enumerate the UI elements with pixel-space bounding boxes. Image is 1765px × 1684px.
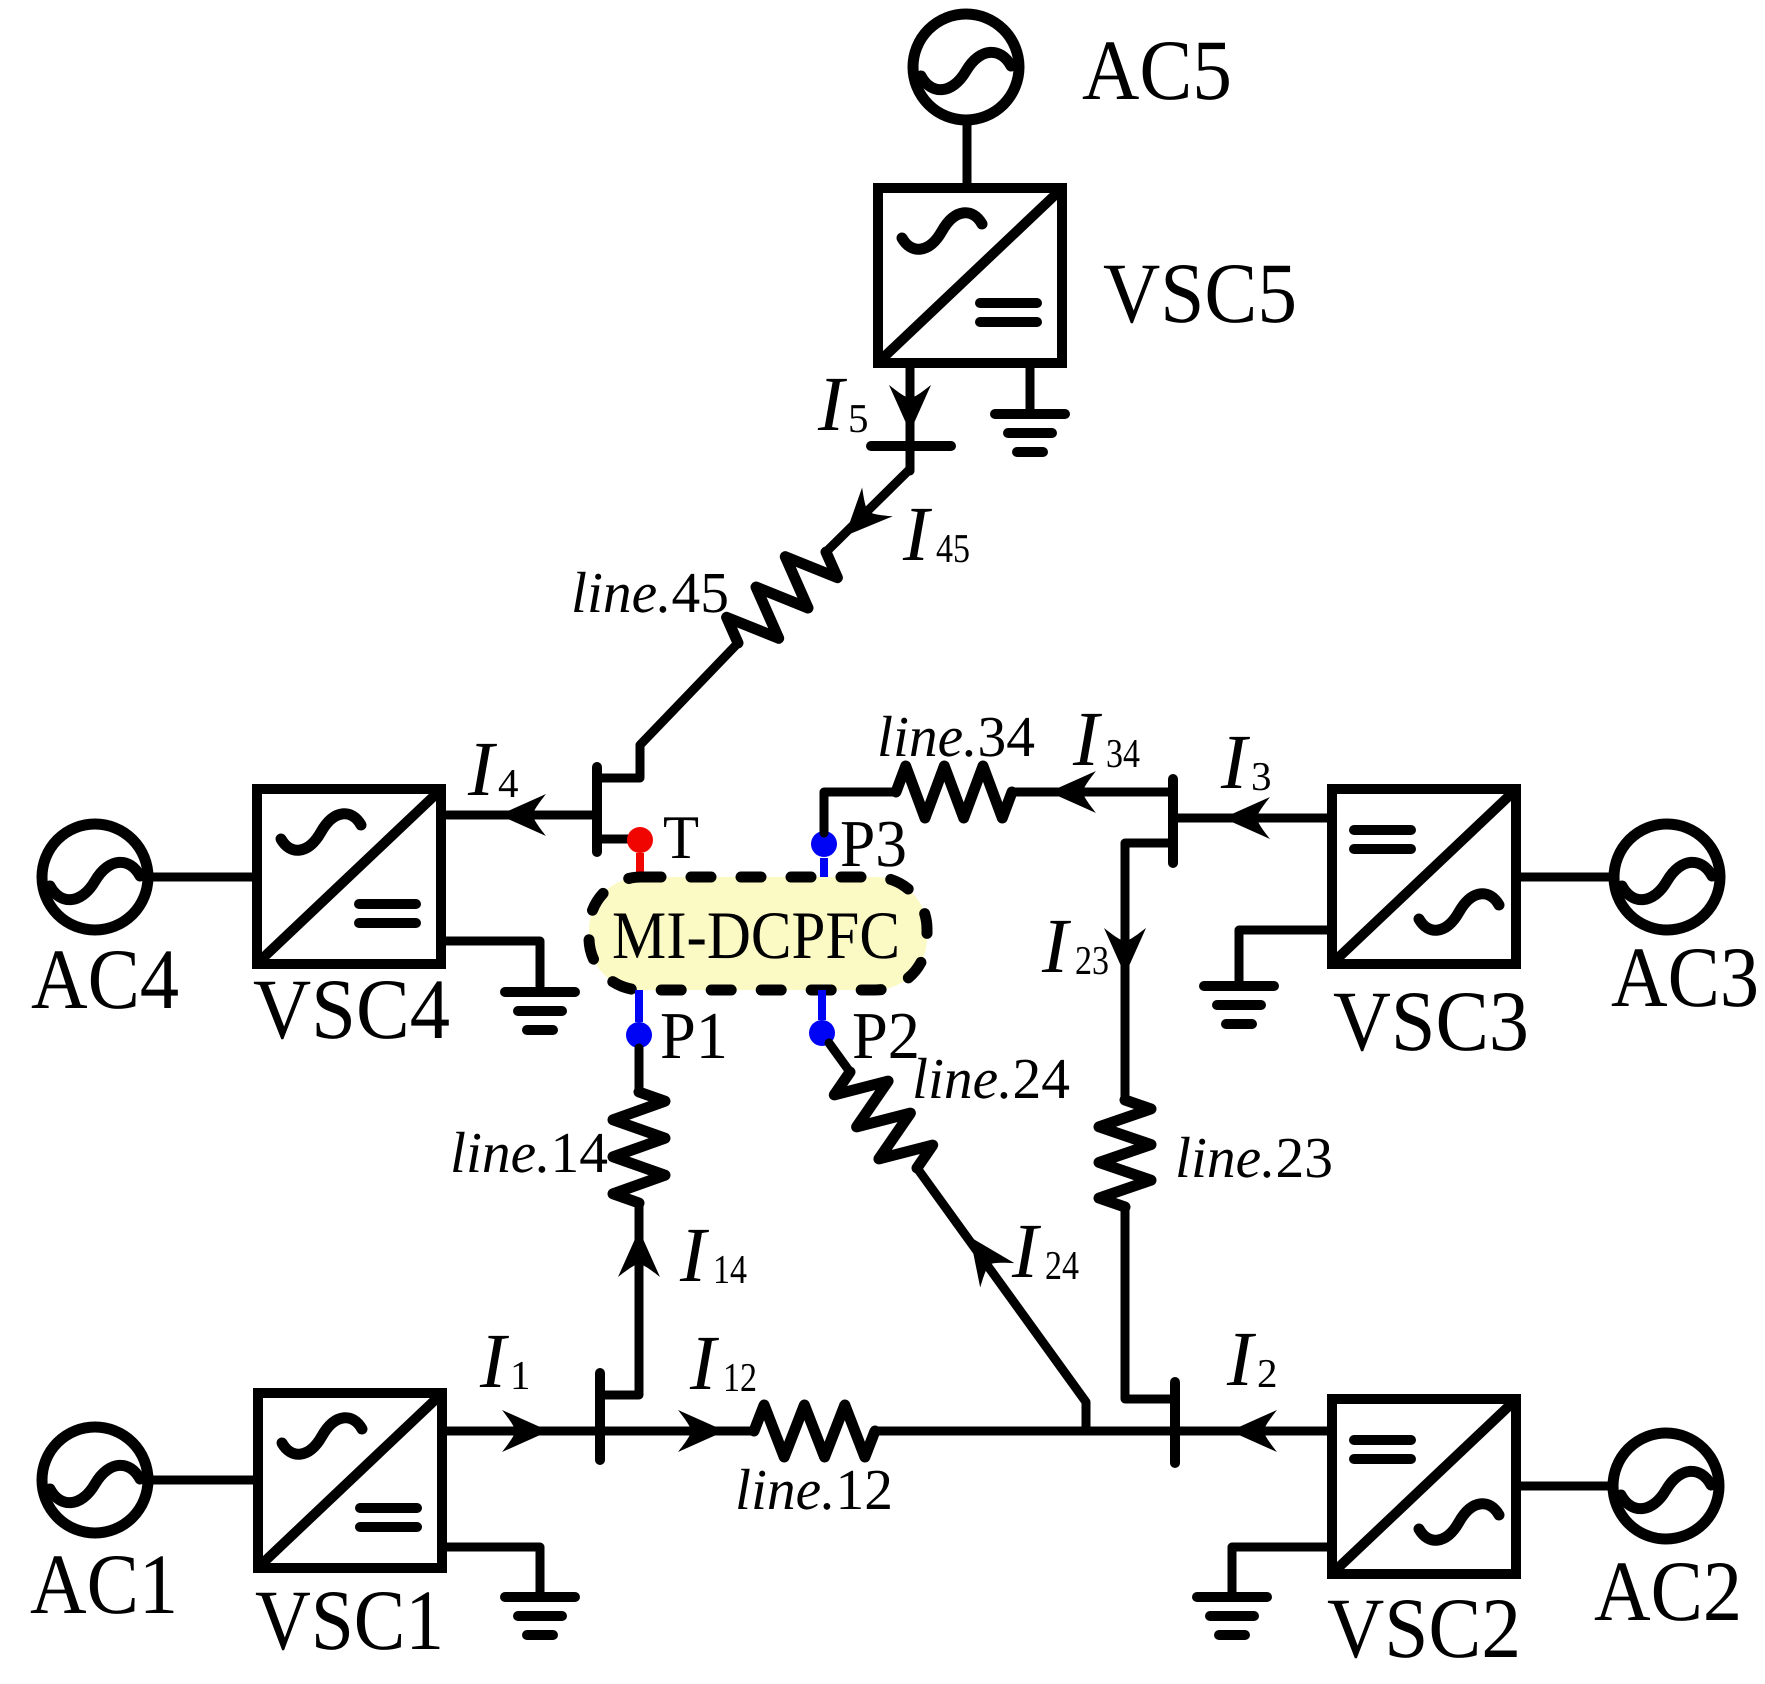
svg-text:P2: P2 [852,999,920,1073]
arrow I14 [618,1230,660,1277]
wire I2 VSC2 to bus2 [1175,1427,1327,1436]
ground at VSC5 [1026,363,1035,414]
converter VSC3 [1332,789,1516,964]
wire P1 to line.14 [635,1048,644,1092]
ground at VSC4 [505,987,575,997]
ac source AC1 [42,1427,148,1533]
wire line.23 to bus2 [1125,1207,1175,1399]
arrow I12 [678,1410,725,1452]
arrow I3 [1223,797,1270,839]
svg-text:line.14: line.14 [450,1120,608,1185]
ground at VSC3 [1204,981,1274,991]
ac source AC5 [913,14,1019,120]
resistor line.14 [613,1092,665,1203]
bus node 2 [1170,1382,1180,1463]
svg-text:VSC3: VSC3 [1333,973,1529,1069]
arrow I45 [830,487,893,550]
ac source AC3 [1614,824,1720,930]
wire AC5 to VSC5 [963,123,972,188]
wire P2 to line.24 [829,1043,850,1072]
svg-text:VSC2: VSC2 [1327,1580,1521,1676]
resistor line.23 [1099,1100,1151,1207]
svg-text:line.45: line.45 [571,560,729,625]
svg-text:T: T [663,804,699,872]
arrow I5 [889,385,931,432]
wire line.14 to bus1 [600,1203,639,1395]
svg-text:AC3: AC3 [1611,929,1759,1025]
svg-text:VSC4: VSC4 [253,961,450,1057]
wire I4 bus4 to VSC4 [447,811,597,820]
wire VSC1 ground elbow [442,1547,540,1597]
svg-text:line.34: line.34 [877,704,1035,769]
wire VSC4 ground elbow [441,941,540,992]
arrow I24 [953,1225,1014,1288]
arrow I34 [1049,771,1096,813]
wire VSC3 ground elbow [1239,930,1331,986]
wire line.45 diagonal [826,469,910,552]
wire line.12 [600,1427,754,1436]
wire AC1 to VSC1 [151,1476,258,1485]
bus node 3 [1168,779,1178,863]
wire bus3 to line.23 [1125,843,1173,1100]
ground at VSC2 [1197,1592,1267,1602]
bus node 1 [595,1373,605,1460]
wire VSC3 to AC3 [1517,873,1611,882]
svg-text:P3: P3 [840,807,907,881]
converter VSC5 [878,188,1062,363]
svg-text:AC5: AC5 [1082,22,1232,118]
node T red dot [636,853,644,877]
arrow I4 [499,794,546,836]
resistor line.34 [896,766,1012,818]
node P3 blue dot [820,858,828,877]
arrow I23 [1104,928,1146,975]
svg-text:MI-DCPFC: MI-DCPFC [612,897,900,973]
wire VSC2 ground elbow [1232,1547,1331,1597]
node P2 blue dot [818,990,826,1020]
svg-text:VSC1: VSC1 [255,1572,444,1668]
svg-text:line.23: line.23 [1175,1125,1333,1190]
arrow I2 [1230,1410,1277,1452]
resistor line.12 [754,1405,875,1457]
node P1 blue dot [635,990,643,1022]
ac source AC2 [1613,1433,1719,1539]
converter VSC1 [258,1393,442,1568]
bus node 4 [592,767,602,852]
wire I3 VSC3 to bus3 [1173,814,1327,823]
svg-text:AC2: AC2 [1594,1543,1742,1639]
wire T stub [597,835,640,844]
wire line.12 to bus2 [875,1427,1175,1436]
svg-text:P1: P1 [660,999,728,1073]
svg-text:line.12: line.12 [735,1457,893,1522]
wire AC4 to VSC4 [151,873,257,882]
ac source AC4 [42,824,148,930]
wire line.34 to bus3 [1012,788,1173,797]
wire line.24 to bottom line [917,1168,1086,1431]
wire VSC2 to AC2 [1517,1482,1610,1491]
wire VSC5 to bus5 [906,363,915,471]
converter VSC2 [1332,1399,1516,1574]
ground at VSC1 [505,1592,575,1602]
svg-text:VSC5: VSC5 [1103,245,1297,341]
arrow I1 [502,1410,549,1452]
converter VSC4 [257,789,441,964]
wire P3 to line.34 [824,792,896,833]
MI-DCPFC controller box [589,877,927,990]
svg-text:line.24: line.24 [912,1046,1070,1111]
svg-text:AC1: AC1 [30,1536,178,1632]
resistor line.45 [727,552,838,643]
bus node 5 [871,441,951,451]
svg-text:AC4: AC4 [31,931,179,1027]
wire I1 VSC1 to bus1 [447,1427,600,1436]
resistor line.24 [834,1072,932,1168]
